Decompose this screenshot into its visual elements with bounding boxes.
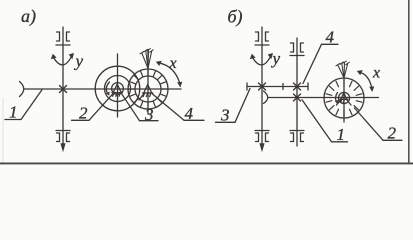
center support triangle of right circle (diagram a) — [139, 85, 153, 101]
rotation double-arrow y (diagram a) — [51, 53, 74, 65]
bearing support bottom of second axis (diagram b) — [290, 131, 304, 142]
callout 4 (diagram b) — [303, 28, 338, 84]
callout 1 (diagram b) — [302, 100, 348, 144]
tool gear circle with teeth (diagram a, item 4) — [128, 69, 168, 109]
lathe center symbol on y-axis (diagram b) — [264, 91, 268, 104]
bearing support top (diagram a) — [56, 32, 70, 45]
center support triangle of left circle (diagram a) — [112, 84, 122, 96]
wire: lower horizontal shaft line (diagram b) — [269, 97, 379, 99]
gear teeth dashes ring (diagram b) — [326, 80, 362, 117]
rotation arc arrow inside left circle (diagram a) — [106, 82, 110, 96]
wire: vertical y-axis of diagram a — [62, 27, 64, 146]
wire: vertical y-axis of diagram b — [261, 27, 263, 146]
junction X mark on y-axis (diagram a) — [60, 86, 67, 93]
svg-text:б): б) — [228, 7, 243, 28]
callout 4 (diagram a) — [153, 94, 205, 123]
svg-text:у: у — [74, 52, 84, 71]
tool gear circle (diagram b, item 2) — [324, 78, 364, 118]
page bottom rule — [0, 162, 413, 164]
mid tick on upper line (diagram b) — [282, 84, 284, 90]
wire: vertical centerline of right circle (diagram a) — [147, 50, 149, 115]
bearing support bottom of y-axis (diagram b) — [255, 131, 269, 142]
bearing support top of y-axis (diagram b) — [255, 32, 269, 45]
svg-text:1: 1 — [337, 125, 346, 144]
lathe center symbol at left end (diagram a) — [20, 82, 24, 97]
center support triangle (diagram b) — [337, 93, 352, 105]
svg-text:2: 2 — [388, 124, 397, 143]
svg-text:у: у — [271, 49, 281, 68]
workpiece gear circle (diagram a, item 2/3) — [95, 66, 140, 111]
svg-text:x: x — [169, 55, 177, 72]
svg-text:x: x — [372, 65, 380, 82]
callout 3 (diagram a) — [121, 93, 158, 124]
rotation arc arrow x (diagram b) — [357, 70, 375, 92]
clamp crow's-foot symbol on top of circle (diagram b) — [336, 61, 349, 78]
wire: vertical centerline of circle (diagram b) — [343, 78, 345, 122]
arrowhead at bottom of y-axis (diagram b) — [259, 143, 264, 152]
rotation arc arrow inside circle (diagram b) — [335, 93, 339, 105]
junction X on second axis and upper line (diagram b) — [294, 83, 301, 90]
wire: vertical centerline of left circle (diagram a) — [117, 54, 119, 117]
bearing support top of second axis (diagram b) — [290, 43, 304, 56]
page right rule — [408, 0, 410, 163]
rotation double-arrow y (diagram b) — [250, 53, 273, 65]
end tick left of upper line (diagram b) — [246, 83, 248, 90]
clamp crow's-foot symbol on top of right circle (diagram a) — [140, 49, 153, 69]
bearing support bottom (diagram a) — [56, 131, 70, 142]
svg-text:а): а) — [21, 6, 36, 27]
callout 1 (diagram a) — [5, 90, 42, 122]
wire: upper horizontal link line (diagram b) — [247, 86, 308, 88]
gear teeth ticks (diagram a right circle) — [128, 70, 167, 109]
callout 3 (diagram b) — [216, 89, 251, 125]
callout 2 (diagram a) — [72, 93, 114, 122]
end tick right of upper line (diagram b) — [307, 83, 309, 90]
hub circle at center (diagram b) — [338, 92, 349, 103]
wire: second vertical axis (diagram b) — [296, 38, 298, 146]
wire: horizontal shaft line of diagram a — [24, 88, 181, 90]
arrowhead at bottom of y-axis (diagram a) — [60, 143, 65, 152]
rotation arc arrow x (diagram a) — [156, 61, 183, 88]
paper background — [0, 0, 413, 165]
svg-text:1: 1 — [9, 103, 18, 122]
junction X on y-axis and upper line (diagram b) — [259, 83, 266, 90]
junction X on second axis and lower line (diagram b) — [294, 94, 301, 101]
faint left paper edge — [2, 98, 4, 162]
callout 2 (diagram b) — [355, 108, 403, 143]
